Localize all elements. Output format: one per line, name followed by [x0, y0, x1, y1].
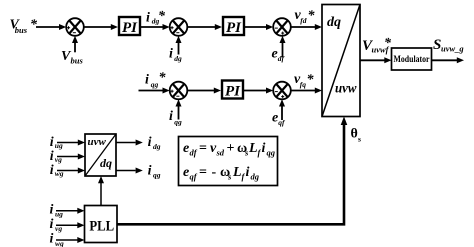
node iqg output label: [148, 164, 161, 180]
row 2: wire iqg* to summing junction S4: [139, 88, 170, 94]
node iug label (PLL input 1): [50, 203, 64, 219]
equation edf = vsd + ws Lf iqg: [183, 141, 276, 158]
svg-text:dg: dg: [251, 172, 260, 182]
svg-text:i: i: [148, 164, 152, 179]
node vfq* label: [294, 72, 315, 89]
svg-text:i: i: [50, 149, 54, 164]
node idg output label: [148, 135, 161, 151]
summing junction S1: [66, 18, 84, 36]
svg-text:*: *: [307, 72, 315, 87]
Modulator block: [392, 48, 432, 70]
node iug label (U2 input 1): [50, 135, 63, 150]
svg-text:uvw_g: uvw_g: [441, 44, 464, 54]
wire Vbus up into S1: [72, 36, 78, 53]
svg-text:i: i: [50, 203, 54, 218]
wire U1 output to Modulator, node Vuvwf*: [360, 57, 392, 63]
svg-text:+: +: [227, 141, 235, 156]
PI controller PI3: [222, 81, 243, 100]
svg-text:s: s: [227, 172, 232, 182]
svg-text:i: i: [169, 47, 173, 62]
equation box: [179, 137, 278, 186]
svg-text:bus: bus: [15, 25, 28, 35]
summing junction S2: [170, 18, 188, 36]
svg-text:=: =: [199, 165, 207, 180]
svg-text:PI: PI: [225, 84, 241, 100]
svg-text:i: i: [146, 11, 150, 26]
svg-text:i: i: [50, 135, 54, 150]
node ivg label (U2 input 2): [50, 149, 62, 164]
svg-text:*: *: [308, 8, 316, 23]
node vfd* label: [295, 8, 316, 25]
wire PI3 to summing junction S5: [243, 88, 273, 94]
svg-text:uvw: uvw: [335, 82, 357, 97]
wire iug into U2: [57, 140, 85, 146]
node iqg feedback label: [169, 109, 182, 126]
svg-text:PLL: PLL: [89, 219, 114, 235]
svg-text:fq: fq: [300, 80, 306, 89]
node Vbus* label: [10, 18, 39, 35]
wire iwg into PLL: [56, 237, 85, 243]
wire PI1 to summing junction S2: [140, 24, 170, 30]
svg-text:sd: sd: [216, 148, 225, 158]
wire ivg into U2: [57, 154, 85, 160]
node iqg* label: [145, 71, 167, 89]
node iwg label (PLL input 3): [50, 232, 65, 247]
svg-text:i: i: [246, 165, 250, 180]
wire ivg into PLL: [56, 222, 85, 228]
svg-text:e: e: [272, 111, 278, 126]
node idg feedback label: [169, 47, 182, 63]
PI controller PI1: [119, 17, 140, 36]
node idg* label: [146, 9, 166, 26]
svg-text:i: i: [145, 73, 149, 88]
wire Vbus* to summing junction S1: [36, 24, 66, 30]
svg-text:dg: dg: [174, 54, 182, 63]
svg-text:i: i: [50, 232, 54, 247]
wire S1 to PI1: [84, 24, 118, 30]
svg-text:i: i: [50, 217, 54, 232]
wire edf up into S3: [280, 36, 286, 57]
uvw to dq transform block U2: [85, 134, 116, 176]
svg-text:i: i: [169, 109, 173, 124]
svg-text:θ: θ: [351, 127, 358, 142]
wire PI2 to summing junction S3: [244, 24, 273, 30]
node iwg label (U2 input 3): [50, 163, 64, 178]
summing junction S5: [273, 82, 291, 100]
svg-text:*: *: [159, 71, 167, 86]
svg-text:e: e: [272, 47, 278, 62]
svg-text:L: L: [248, 141, 258, 156]
node theta_s label: [351, 127, 362, 144]
dq to uvw transform block U1: [322, 5, 360, 117]
node edf label: [272, 47, 286, 63]
node Vbus feedback label: [61, 49, 83, 66]
summing junction S4: [170, 82, 188, 100]
svg-text:qf: qf: [190, 172, 198, 182]
wire Modulator output, node Suvw_g: [432, 57, 465, 63]
wire PLL theta_s to U1 (thick, right then up): [117, 117, 347, 225]
node eqf label: [272, 111, 286, 127]
wire S2 to PI2: [187, 24, 222, 30]
node ivg label (PLL input 2): [50, 217, 63, 233]
wire S4 to PI3: [187, 88, 221, 94]
svg-text:qg: qg: [151, 80, 159, 89]
equation eqf = - ws Lf idg: [183, 165, 260, 182]
svg-text:i: i: [50, 163, 54, 178]
svg-text:s: s: [358, 135, 361, 144]
wire S3 to dq/uvw block, node vfd*: [291, 24, 322, 30]
wire PLL up to U2 (theta): [98, 176, 104, 206]
wire S5 to dq/uvw block, node vfq*: [291, 88, 322, 94]
svg-text:PI: PI: [122, 20, 138, 36]
wire iqg up into S4: [176, 99, 182, 119]
wire U2 output idg: [116, 140, 143, 146]
svg-text:dq: dq: [100, 156, 112, 170]
svg-text:df: df: [190, 148, 198, 158]
svg-text:=: =: [199, 141, 207, 156]
wire iug into PLL: [56, 208, 85, 214]
svg-text:qg: qg: [267, 148, 276, 158]
svg-text:e: e: [183, 165, 189, 180]
svg-text:PI: PI: [226, 20, 242, 36]
wire eqf up into S5: [279, 99, 285, 120]
svg-text:i: i: [262, 141, 266, 156]
svg-text:bus: bus: [71, 56, 84, 66]
wire U2 output iqg: [116, 168, 143, 174]
svg-text:qg: qg: [153, 170, 161, 179]
summing junction S3: [273, 18, 291, 36]
svg-text:uvw: uvw: [88, 136, 107, 148]
svg-text:dg: dg: [153, 142, 161, 151]
PI controller PI2: [223, 17, 244, 36]
svg-text:L: L: [232, 165, 242, 180]
svg-text:*: *: [158, 9, 166, 24]
svg-text:fd: fd: [300, 16, 306, 25]
PLL block U3: [85, 206, 118, 243]
svg-text:i: i: [148, 135, 152, 150]
wire idg up into S2: [176, 36, 182, 55]
svg-text:-: -: [212, 165, 217, 180]
svg-text:e: e: [183, 141, 189, 156]
node Suvw_g label: [433, 37, 464, 54]
node Vuvwf* label: [362, 36, 392, 55]
svg-text:dq: dq: [327, 15, 341, 30]
wire iwg into U2: [57, 168, 85, 174]
svg-text:*: *: [30, 18, 38, 33]
svg-text:Modulator: Modulator: [394, 55, 431, 65]
